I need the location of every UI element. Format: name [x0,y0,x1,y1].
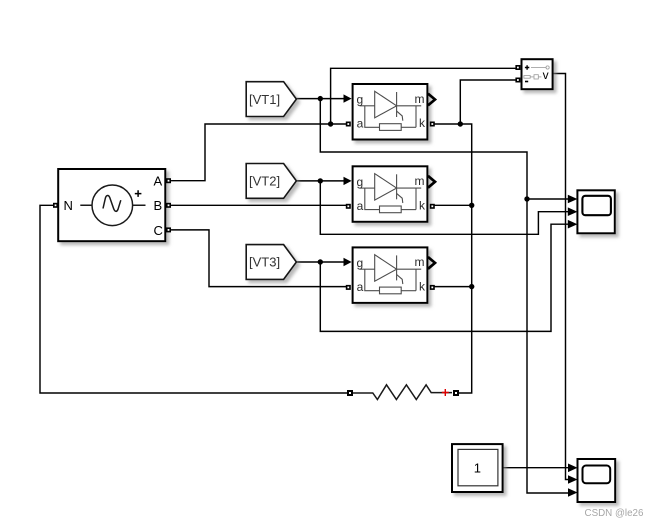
port A [166,178,171,183]
node VT2 gate junction [318,178,323,183]
svg-text:[VT2]: [VT2] [249,174,280,189]
source block AC three-phase [53,169,171,241]
node A-row junction [328,121,333,126]
node VT1 gate junction [318,96,323,101]
pin m chevron [428,94,435,106]
from-tag VT1 [246,82,296,117]
pin g arrow [344,94,352,102]
wire VT2 gate route to scope1 input2 [320,181,568,234]
node scope1 input1 junction [524,196,529,201]
wire scope1 input1 branch [527,198,569,200]
svg-text:a: a [357,117,364,131]
pin k square [430,204,435,209]
from-tag VT3 [246,245,296,280]
svg-text:a: a [357,199,364,213]
svg-text:CSDN @le26: CSDN @le26 [585,508,645,519]
svg-text:k: k [419,116,426,130]
svg-text:C: C [154,223,163,238]
pin k square [430,122,435,127]
wire VT2 cathode [433,204,472,206]
svg-text:a: a [357,280,364,294]
svg-text:N: N [64,198,73,213]
from-tag VT2 [246,164,296,199]
scope block Scope2 [568,459,615,502]
wire VT3 cathode [433,286,472,288]
voltmeter U4 [515,59,552,89]
pin m chevron [428,257,435,269]
thyristor U2 [344,166,436,222]
svg-text:[VT1]: [VT1] [249,92,280,107]
node VT3 gate junction [318,259,323,264]
node cathode junction VT3 [469,284,474,289]
svg-text:g: g [357,175,364,189]
wire N to resistor left [40,205,348,393]
constant block value 1 [452,444,503,492]
svg-text:k: k [419,199,426,213]
node cathode junction VT2 [469,203,474,208]
wire cathode to voltmeter minus [460,80,517,124]
svg-text:m: m [415,92,425,106]
svg-text:v: v [543,68,549,82]
pin a square [346,204,351,209]
wire VT3 gate [296,261,344,263]
pin 2 arrow [568,207,578,216]
wire VT3 gate route to scope1 input3 [320,224,568,331]
wire VT2 gate [296,180,344,182]
wire phase C to VT3 anode [171,230,347,287]
resistor polarity plus marker [442,389,449,396]
pin 1 arrow [568,195,578,204]
wire phase A to VT1 anode [171,124,347,181]
pin g arrow [344,177,352,185]
pin a square [346,122,351,127]
svg-text:1: 1 [474,460,481,475]
port B [166,203,171,208]
pin k square [430,285,435,290]
svg-text:g: g [357,256,364,270]
svg-text:k: k [419,280,426,294]
wire VT1 gate [296,98,344,100]
svg-text:B: B [154,198,163,213]
resistor R load [347,385,459,400]
pin a square [346,285,351,290]
port N [53,203,58,208]
svg-text:A: A [154,174,163,189]
svg-text:[VT3]: [VT3] [249,255,280,270]
wire constant to scope2 input1 [503,467,569,469]
thyristor U3 [344,247,436,303]
svg-text:m: m [415,255,425,269]
pin minus square [515,78,520,83]
pin 2 arrow [568,475,578,484]
thyristor U1 [344,84,436,140]
node cathode junction VT1 [458,121,463,126]
pin g arrow [344,258,352,266]
pin plus square [515,65,520,70]
wire VT1 anode to voltmeter plus [331,68,517,124]
wire phase B to VT2 anode [171,204,347,206]
wire VT1 gate route to scopes [320,99,568,493]
wire cathode bus [433,124,472,393]
pin m chevron [428,176,435,188]
pin 1 arrow [568,464,578,473]
svg-text:m: m [415,174,425,188]
svg-text:g: g [357,93,364,107]
scope block Scope1 [568,190,615,233]
port C [166,227,171,232]
pin 3 arrow [568,220,578,229]
wire voltmeter output to scope2 input2 [553,74,569,480]
pin 3 arrow [568,488,578,497]
